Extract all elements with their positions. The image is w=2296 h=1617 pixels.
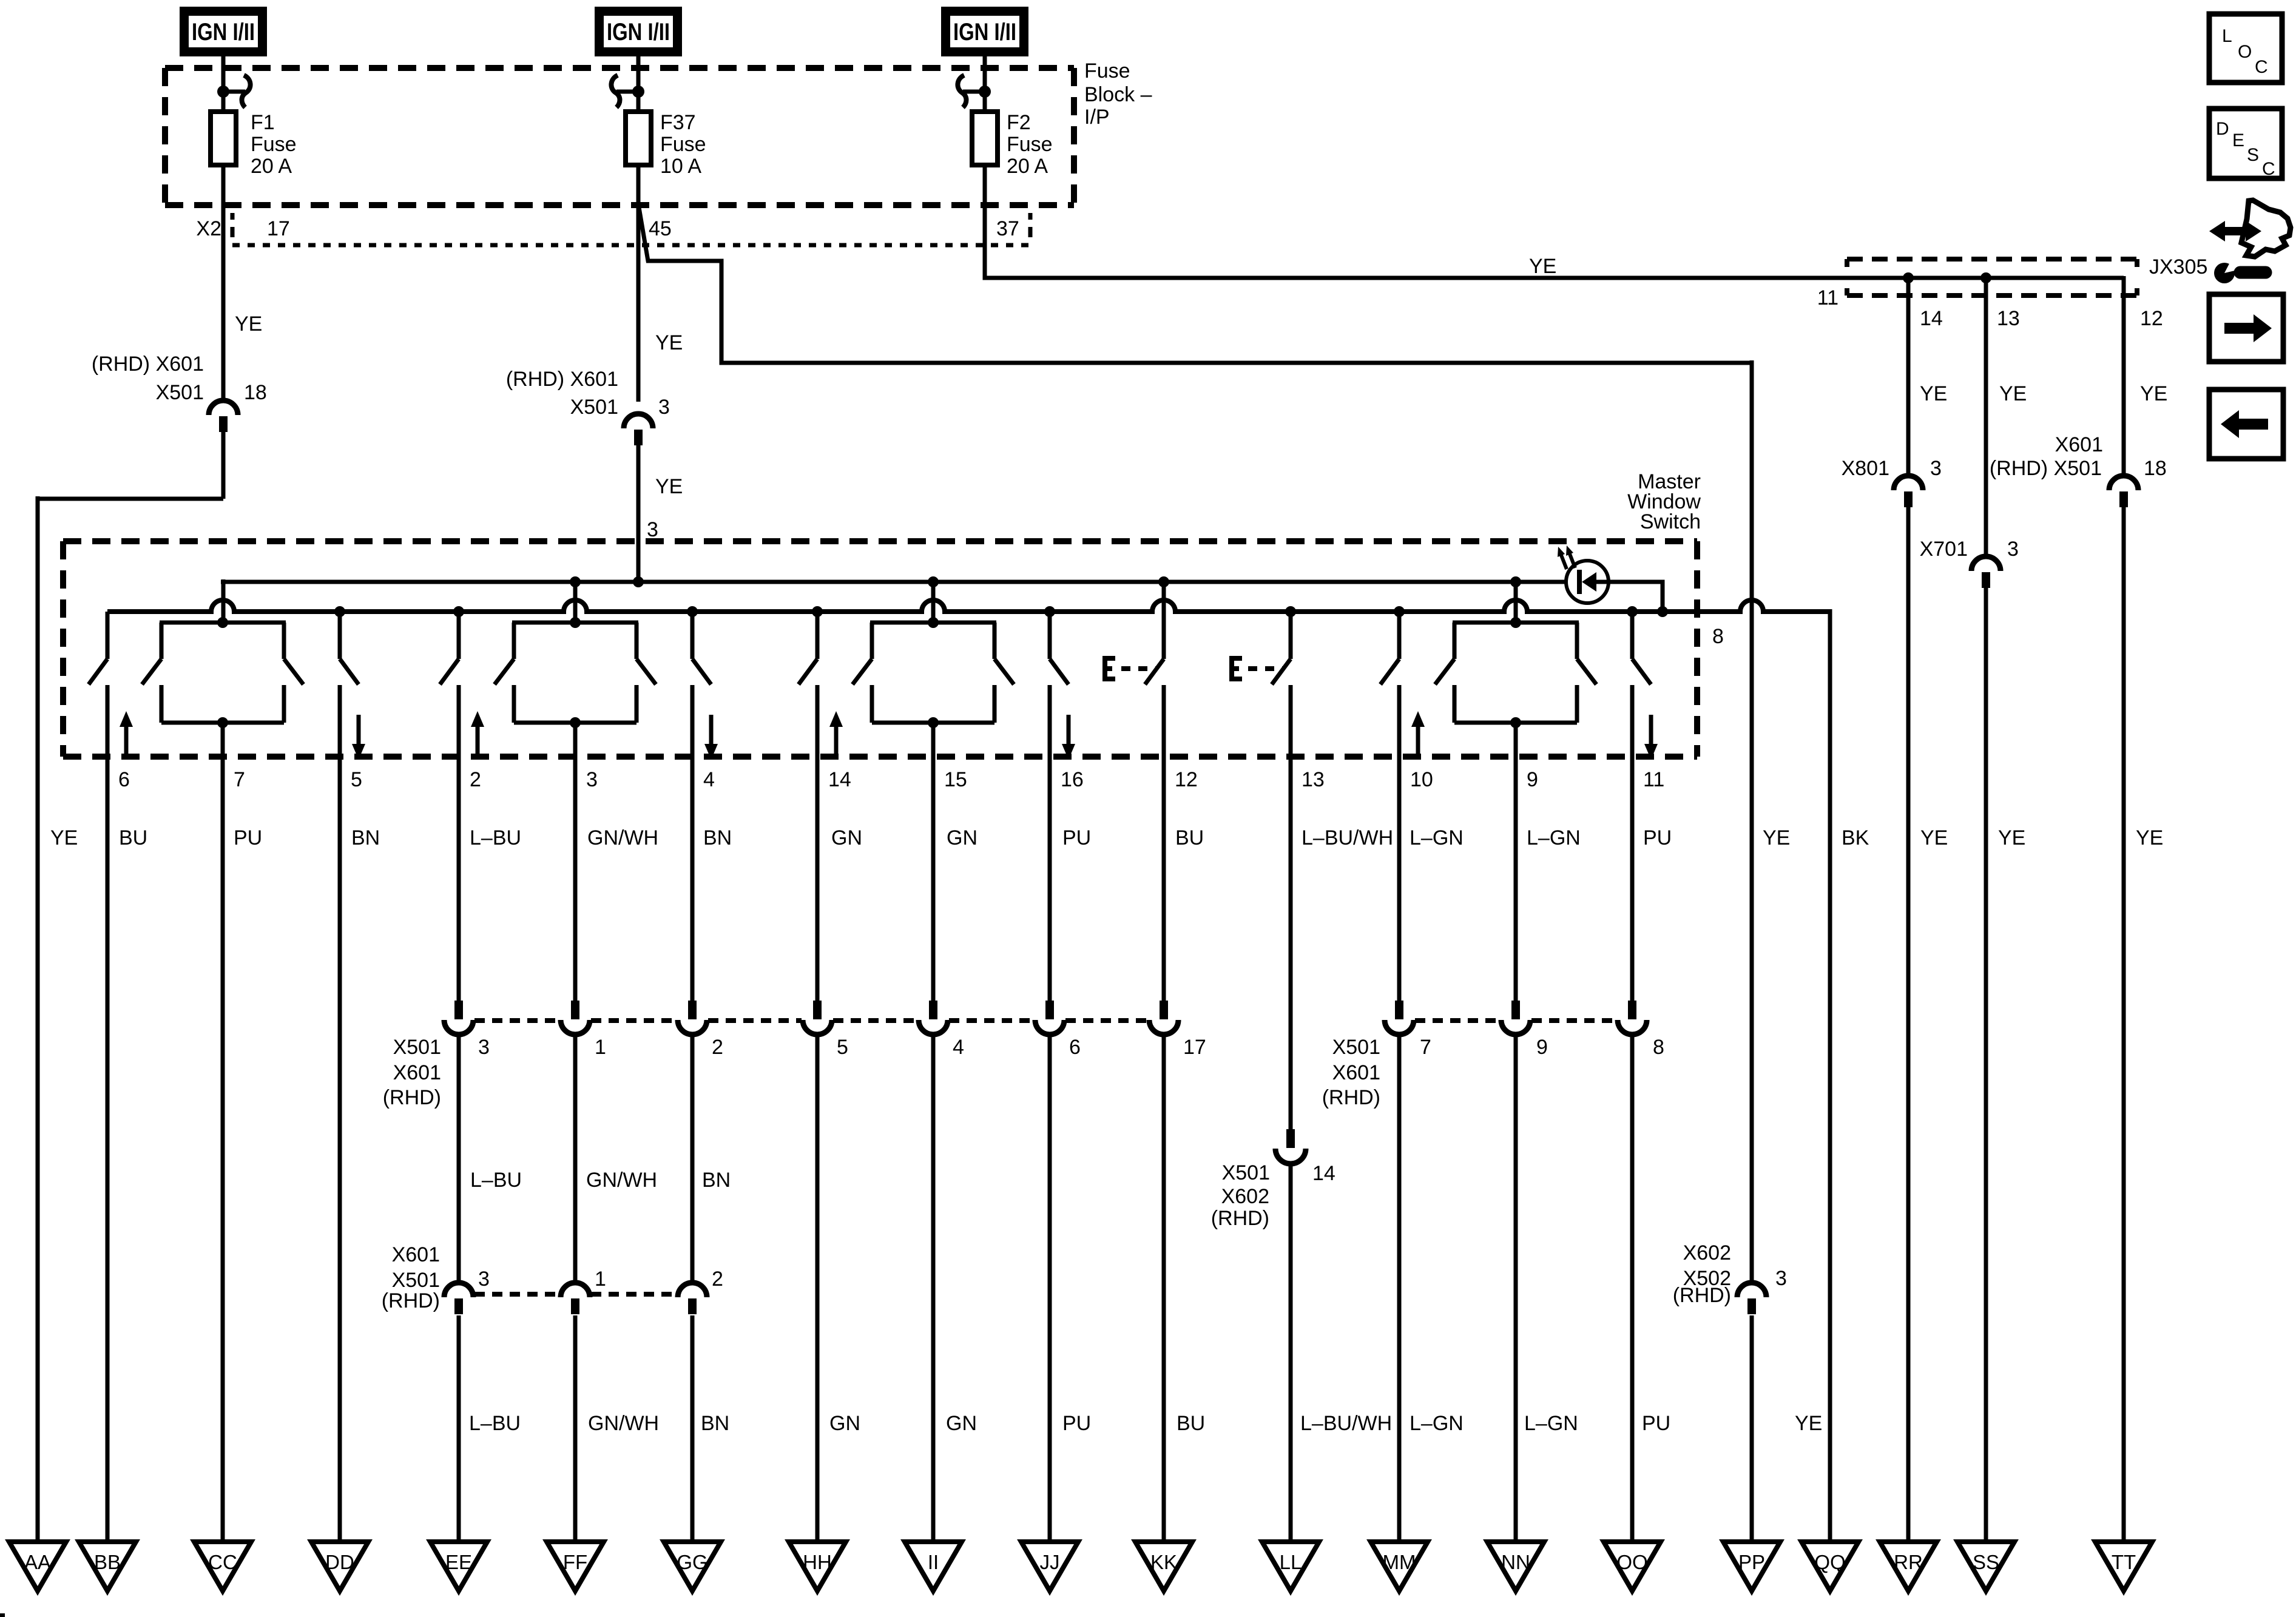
svg-text:JJ: JJ [1040, 1551, 1060, 1573]
svg-text:RR: RR [1894, 1551, 1923, 1573]
wire EE vertical upper [457, 759, 461, 1002]
svg-text:GN/WH: GN/WH [587, 826, 658, 849]
dashed links row2 [474, 1292, 677, 1297]
switch left rear down contact (pin 16) [1050, 612, 1069, 759]
svg-text:20 A: 20 A [1007, 155, 1048, 178]
svg-text:Switch: Switch [1640, 510, 1701, 533]
wire LL vertical lower (L-BU/WH) [1289, 1165, 1293, 1542]
wire RR vertical lower (YE) [1906, 507, 1911, 1542]
wire CC vertical (PU) [221, 759, 225, 1542]
switch right rear rocker (pin 9) [1435, 582, 1596, 759]
node fuse holder terminal F37 [611, 75, 644, 107]
svg-text:GN: GN [946, 1412, 977, 1435]
fuse F1 20 A [211, 112, 236, 165]
page mark bottom left [0, 1613, 5, 1617]
arrow down (pin 5) [352, 715, 365, 760]
svg-text:37: 37 [996, 217, 1019, 240]
wire X501-3 into master switch pin 3 (YE) [636, 445, 641, 582]
svg-text:12: 12 [2140, 307, 2163, 330]
label X601 X501 (RHD) row2 [382, 1243, 440, 1312]
terminal triangle BB [79, 1542, 136, 1591]
terminal triangle LL [1262, 1542, 1319, 1591]
connector X501/X601 pin 5 on HH [803, 1001, 832, 1035]
svg-text:(RHD) X501: (RHD) X501 [1990, 457, 2102, 480]
svg-text:14: 14 [1920, 307, 1943, 330]
svg-text:BU: BU [119, 826, 147, 849]
svg-text:3: 3 [647, 518, 658, 541]
svg-text:17: 17 [1183, 1036, 1206, 1059]
node fuse holder terminal F1 [217, 75, 251, 107]
node JX305 to SS [1980, 272, 1991, 283]
label F2 Fuse 20 A [1007, 111, 1053, 178]
wire IGN to fuse F37 [636, 56, 641, 114]
svg-text:YE: YE [235, 312, 262, 336]
terminal triangle OO [1604, 1542, 1661, 1591]
svg-text:DD: DD [325, 1551, 354, 1573]
svg-text:14: 14 [1312, 1162, 1335, 1185]
terminal triangle NN [1487, 1542, 1544, 1591]
connector X2 dotted boundary line [232, 243, 1028, 248]
svg-text:YE: YE [50, 826, 78, 849]
svg-text:PU: PU [234, 826, 262, 849]
svg-text:D: D [2216, 119, 2229, 139]
terminal triangle GG [664, 1542, 721, 1591]
svg-text:4: 4 [703, 768, 715, 791]
connector X501 pin 3 (F37) [624, 414, 653, 445]
connector X2 left boundary dashes [231, 213, 235, 237]
label F1 Fuse 20 A [251, 111, 297, 178]
terminal triangle II [905, 1542, 962, 1591]
connector X701 pin 3 [1971, 556, 2001, 588]
svg-text:F1: F1 [251, 111, 275, 134]
connector X2 right boundary dashes [1028, 213, 1033, 237]
wire F1 fuse to connector X501 (YE) [221, 165, 226, 402]
svg-text:BN: BN [701, 1412, 729, 1435]
svg-text:11: 11 [1643, 768, 1664, 791]
switch right front up contact (pin 2) [440, 612, 459, 759]
svg-text:GN: GN [831, 826, 862, 849]
switch right rear up contact (pin 10) [1380, 612, 1399, 759]
svg-text:13: 13 [1302, 768, 1325, 791]
svg-text:(RHD): (RHD) [1211, 1207, 1269, 1230]
connector X601/X501 pin 2 on GG (row2) [678, 1283, 707, 1314]
terminal triangle HH [789, 1542, 846, 1591]
switch left front rocker (pin 7) [142, 617, 303, 759]
svg-text:L–BU: L–BU [470, 826, 521, 849]
svg-text:PU: PU [1062, 826, 1091, 849]
node bus A at KK switch [1158, 576, 1169, 587]
svg-text:6: 6 [1069, 1036, 1081, 1059]
switch right front rocker (pin 3) [495, 582, 656, 759]
node bus B at OO [1627, 606, 1638, 617]
svg-text:3: 3 [1775, 1267, 1787, 1290]
connector X501/X601 pin 7 on MM [1385, 1001, 1414, 1035]
svg-text:PP: PP [1738, 1551, 1765, 1573]
wire OO vertical lower [1630, 1035, 1635, 1542]
svg-text:L–GN: L–GN [1410, 1412, 1464, 1435]
wire SS vertical upper (YE) [1984, 278, 1988, 557]
arrow down (pin 4) [704, 715, 718, 760]
fuse block I/P dashed outline [165, 68, 1074, 205]
svg-text:2: 2 [712, 1268, 723, 1291]
terminal triangle RR [1880, 1542, 1937, 1591]
svg-text:X501: X501 [393, 1036, 441, 1059]
svg-text:GN: GN [829, 1412, 860, 1435]
svg-text:YE: YE [1920, 826, 1948, 849]
label Fuse Block - I/P [1084, 59, 1152, 129]
svg-text:IGN I/II: IGN I/II [607, 19, 670, 46]
wire II vertical upper [931, 759, 936, 1002]
svg-text:3: 3 [1930, 457, 1942, 480]
switch left front down contact (pin 5) [340, 612, 359, 759]
power tag IGN I/II (IGN2) [595, 7, 682, 56]
svg-text:(RHD): (RHD) [1673, 1284, 1731, 1307]
svg-text:L–BU/WH: L–BU/WH [1302, 826, 1393, 849]
icon back arrow box [2209, 390, 2283, 459]
terminal triangle MM [1371, 1542, 1428, 1591]
svg-text:(RHD) X601: (RHD) X601 [506, 368, 618, 391]
svg-text:HH: HH [803, 1551, 832, 1573]
wire FF vertical upper [573, 759, 578, 1002]
connector X501 pin 18 [209, 400, 238, 432]
connector X601/X501 pin 18 (TT) [2109, 476, 2138, 507]
wire branch at pin 45 to PP feed [638, 204, 1752, 363]
label X602 X502 (RHD) (PP) [1673, 1241, 1731, 1307]
icon double arrow [2209, 221, 2261, 241]
svg-text:QQ: QQ [1814, 1551, 1845, 1573]
svg-text:GN/WH: GN/WH [586, 1169, 657, 1192]
wire OO vertical upper [1630, 759, 1635, 1002]
connector X801 pin 3 [1894, 476, 1923, 507]
svg-text:3: 3 [478, 1036, 490, 1059]
svg-text:(RHD): (RHD) [1322, 1086, 1380, 1109]
svg-text:Fuse: Fuse [660, 133, 706, 156]
svg-text:KK: KK [1150, 1551, 1177, 1573]
svg-text:L–BU: L–BU [470, 1169, 522, 1192]
wire bus B common to ground QQ [107, 600, 1830, 612]
svg-text:BN: BN [702, 1169, 731, 1192]
svg-text:X501: X501 [570, 396, 618, 419]
wire PP vertical upper (YE) [1750, 360, 1754, 1283]
svg-text:3: 3 [2007, 538, 2019, 561]
svg-text:45: 45 [649, 217, 672, 240]
svg-text:YE: YE [1763, 826, 1790, 849]
connector X501/X601 pin 3 on EE [444, 1001, 473, 1035]
wire RR vertical upper (YE) [1906, 278, 1911, 476]
svg-text:10: 10 [1410, 768, 1433, 791]
svg-text:JX305: JX305 [2149, 255, 2207, 279]
svg-text:L: L [2222, 26, 2232, 46]
svg-text:15: 15 [944, 768, 967, 791]
svg-text:O: O [2238, 42, 2252, 62]
svg-text:Fuse: Fuse [1007, 133, 1053, 156]
svg-text:6: 6 [118, 768, 130, 791]
node JX305 to RR [1903, 272, 1914, 283]
arrow up (pin 10) [1411, 711, 1425, 756]
svg-text:X602: X602 [1221, 1185, 1269, 1208]
node bus A at pin 3 entry [633, 576, 644, 587]
switch lockout E contact (pin 12) [1145, 582, 1164, 759]
svg-text:YE: YE [1529, 255, 1556, 278]
wire HH vertical upper [815, 759, 820, 1002]
svg-text:8: 8 [1712, 625, 1724, 648]
svg-text:(RHD) X601: (RHD) X601 [92, 353, 204, 376]
svg-text:BU: BU [1175, 826, 1204, 849]
label X601 / (RHD) X501 (TT) [1990, 433, 2103, 480]
svg-text:3: 3 [586, 768, 598, 791]
connector X601/X501 pin 1 on FF (row2) [561, 1283, 590, 1314]
label X501 X601 (RHD) group2 [1322, 1036, 1380, 1109]
svg-text:2: 2 [470, 768, 481, 791]
switch right rear down contact (pin 11) [1632, 612, 1651, 759]
svg-text:2: 2 [712, 1036, 723, 1059]
arrow down (pin 16) [1062, 715, 1075, 760]
switch left rear rocker (pin 15) [853, 582, 1014, 759]
svg-text:5: 5 [837, 1036, 848, 1059]
svg-text:X601: X601 [392, 1243, 440, 1266]
svg-text:OO: OO [1616, 1551, 1647, 1573]
svg-text:PU: PU [1062, 1412, 1091, 1435]
connector X501/X601 pin 1 on FF [561, 1001, 590, 1035]
svg-text:7: 7 [1420, 1036, 1431, 1059]
svg-text:X501: X501 [1332, 1036, 1380, 1059]
wire TT vertical upper (YE) [2122, 276, 2126, 476]
node bus A at FF rocker [570, 576, 581, 587]
node bus B at HH [812, 606, 823, 617]
svg-text:LL: LL [1280, 1551, 1302, 1573]
arrow up (pin 2) [471, 711, 484, 756]
svg-text:X501: X501 [392, 1269, 440, 1292]
svg-text:CC: CC [208, 1551, 237, 1573]
svg-text:L–BU: L–BU [469, 1412, 521, 1435]
wire MM vertical upper [1397, 759, 1402, 1002]
wire LED return to bus B [1607, 582, 1663, 612]
icon harness connector outline [2241, 200, 2291, 257]
svg-text:BB: BB [94, 1551, 121, 1573]
svg-text:12: 12 [1175, 768, 1198, 791]
wire connector X501-18 down and left to AA [38, 432, 223, 499]
svg-text:(RHD): (RHD) [382, 1289, 440, 1312]
wire TT vertical lower (YE) [2122, 507, 2126, 1542]
wire MM vertical lower [1397, 1035, 1402, 1542]
svg-text:SS: SS [1973, 1551, 1999, 1573]
svg-text:GN/WH: GN/WH [588, 1412, 659, 1435]
svg-text:L–GN: L–GN [1527, 826, 1581, 849]
node bus B at GG [687, 606, 698, 617]
wire NN vertical upper [1514, 759, 1518, 1002]
svg-text:YE: YE [1795, 1412, 1822, 1435]
svg-text:X601: X601 [1332, 1061, 1380, 1084]
switch right front down contact (pin 4) [692, 612, 711, 759]
node bus B at MM [1394, 606, 1405, 617]
svg-text:18: 18 [2144, 457, 2167, 480]
arrow up (pin 6) [120, 711, 133, 756]
label X501 X602 (RHD) (LL) [1211, 1161, 1270, 1230]
wire LL vertical upper (L-BU/WH) [1289, 759, 1293, 1130]
terminal triangle PP [1723, 1542, 1780, 1591]
connector X501/X601 pin 4 on II [919, 1001, 948, 1035]
svg-text:13: 13 [1997, 307, 2020, 330]
node bus B at DD [334, 606, 345, 617]
svg-text:20 A: 20 A [251, 155, 292, 178]
svg-text:BK: BK [1842, 826, 1869, 849]
svg-text:X501: X501 [1222, 1161, 1270, 1184]
node bus B at JJ [1044, 606, 1055, 617]
svg-text:16: 16 [1061, 768, 1084, 791]
switch left rear up contact (pin 14) [799, 612, 817, 759]
arrow down (pin 11) [1644, 715, 1658, 760]
wire IGN to fuse F1 [221, 56, 226, 114]
svg-text:YE: YE [655, 331, 683, 354]
icon DESC box [2209, 109, 2282, 179]
wire NN vertical lower [1514, 1035, 1518, 1542]
fuse F2 20 A [972, 112, 998, 165]
svg-text:X601: X601 [2055, 433, 2103, 456]
svg-text:IGN I/II: IGN I/II [192, 19, 255, 46]
svg-text:L–BU/WH: L–BU/WH [1300, 1412, 1392, 1435]
wire DD vertical (BN) [338, 759, 342, 1542]
svg-text:X501: X501 [156, 381, 204, 404]
svg-text:8: 8 [1653, 1036, 1664, 1059]
terminal triangle TT [2095, 1542, 2152, 1591]
dashed links row1 group2 [1415, 1018, 1616, 1023]
label Master Window Switch [1627, 470, 1701, 533]
arrow up (pin 14) [829, 711, 843, 756]
svg-text:Fuse: Fuse [251, 133, 297, 156]
connector X601/X501 pin 3 on EE (row2) [444, 1283, 473, 1314]
svg-text:NN: NN [1501, 1551, 1530, 1573]
power tag IGN I/II (IGN1) [180, 7, 267, 56]
label (RHD) X601 / X501 (F37) [506, 368, 618, 419]
svg-text:3: 3 [478, 1268, 490, 1291]
master window switch dashed outline [63, 541, 1697, 757]
node bus B at LED return [1657, 606, 1668, 617]
wire KK vertical lower [1162, 1035, 1166, 1542]
svg-text:GN: GN [947, 826, 977, 849]
svg-text:X601: X601 [393, 1061, 441, 1084]
dashed links row1 group1 [474, 1018, 1148, 1023]
wire JJ vertical lower [1048, 1035, 1052, 1542]
wire EE vertical lower [457, 1315, 461, 1542]
wire HH vertical lower [815, 1035, 820, 1542]
connector X501/X601 pin 2 on GG [678, 1001, 707, 1035]
label X501 X601 (RHD) group1 [383, 1036, 441, 1109]
icon forward arrow box [2209, 294, 2283, 362]
LED indicator lamp [1566, 561, 1609, 603]
svg-text:FF: FF [563, 1551, 587, 1573]
label (RHD) X601 / X501 (F1) [92, 353, 204, 404]
svg-text:BN: BN [703, 826, 732, 849]
wire KK vertical upper [1162, 759, 1166, 1002]
node bus A at NN rocker [1510, 576, 1521, 587]
wire BB vertical (BU) [106, 759, 110, 1542]
label E with dashed link (pin 13) [1229, 656, 1284, 681]
svg-text:L–GN: L–GN [1524, 1412, 1578, 1435]
svg-text:BU: BU [1177, 1412, 1205, 1435]
svg-text:L–GN: L–GN [1410, 826, 1464, 849]
svg-text:AA: AA [24, 1551, 51, 1573]
wire F37 fuse through pin 45 (YE) [636, 165, 641, 402]
terminal triangle QQ [1801, 1542, 1859, 1591]
svg-text:17: 17 [267, 217, 290, 240]
svg-text:YE: YE [1998, 826, 2025, 849]
svg-text:X602: X602 [1683, 1241, 1731, 1264]
svg-text:II: II [928, 1551, 939, 1573]
fuse F37 10 A [626, 112, 651, 165]
switch lockout E contact (pin 13) [1272, 612, 1291, 759]
wire II vertical lower [931, 1035, 936, 1542]
svg-text:C: C [2262, 159, 2275, 179]
connector X501/X602 pin 14 on LL [1275, 1129, 1306, 1164]
wire FF vertical lower [573, 1315, 578, 1542]
label F37 Fuse 10 A [660, 111, 706, 178]
svg-text:9: 9 [1536, 1036, 1548, 1059]
svg-text:F37: F37 [660, 111, 696, 134]
svg-text:14: 14 [828, 768, 851, 791]
svg-text:X2: X2 [196, 217, 221, 240]
svg-text:5: 5 [351, 768, 362, 791]
node bus A at II rocker [928, 576, 939, 587]
svg-text:10 A: 10 A [660, 155, 701, 178]
svg-text:IGN I/II: IGN I/II [953, 19, 1016, 46]
node bus B at EE [453, 606, 464, 617]
wire F2 pin 37 long feed (YE) to JX305 [985, 165, 2124, 278]
terminal triangle FF [547, 1542, 604, 1591]
node bus B at LL [1285, 606, 1296, 617]
connector X501/X601 pin 17 on KK [1149, 1001, 1178, 1035]
switch left front up contact (pin 6) [89, 612, 107, 759]
wire PP vertical lower (YE) [1750, 1315, 1754, 1542]
wire QQ vertical (BK) [1828, 609, 1832, 1542]
svg-text:C: C [2255, 57, 2268, 77]
svg-text:S: S [2247, 145, 2259, 165]
svg-text:1: 1 [595, 1036, 606, 1059]
wire IGN to fuse F2 [983, 56, 987, 114]
wire GG vertical upper [690, 759, 695, 1002]
svg-text:I/P: I/P [1084, 106, 1110, 129]
connector X602/X502 pin 3 on PP [1737, 1283, 1766, 1314]
svg-text:YE: YE [2140, 382, 2167, 405]
terminal triangle JJ [1021, 1542, 1078, 1591]
wire SS vertical lower (YE) [1984, 588, 1988, 1542]
wire GG vertical lower [690, 1315, 695, 1542]
terminal triangle SS [1957, 1542, 2014, 1591]
icon wrench [2214, 259, 2266, 283]
wire FF vertical middle [573, 1035, 578, 1283]
label E with dashed link (pin 12) [1102, 656, 1157, 681]
svg-text:F2: F2 [1007, 111, 1031, 134]
svg-text:X701: X701 [1920, 538, 1968, 561]
wire bus A from pin 3 feed across switch [221, 579, 1567, 623]
node fuse holder terminal F2 [957, 75, 991, 107]
terminal triangle AA [9, 1542, 66, 1591]
connector X501/X601 pin 6 on JJ [1035, 1001, 1064, 1035]
junction block JX305 dashed outline [1847, 259, 2137, 295]
svg-text:EE: EE [445, 1551, 472, 1573]
svg-text:9: 9 [1527, 768, 1538, 791]
svg-text:X801: X801 [1842, 457, 1889, 480]
connector X501/X601 pin 8 on OO [1618, 1001, 1647, 1035]
svg-text:BN: BN [351, 826, 380, 849]
svg-text:Block –: Block – [1084, 83, 1152, 106]
svg-text:GG: GG [677, 1551, 707, 1573]
svg-text:Fuse: Fuse [1084, 59, 1130, 83]
svg-text:4: 4 [953, 1036, 964, 1059]
icon LOC box [2209, 14, 2282, 83]
svg-text:18: 18 [244, 381, 267, 404]
terminal triangle CC [194, 1542, 251, 1591]
terminal triangle DD [311, 1542, 368, 1591]
